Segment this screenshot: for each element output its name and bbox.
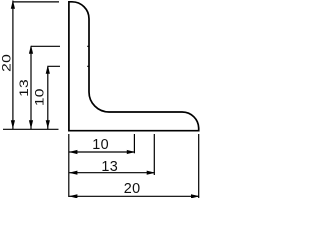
dimension line 13 (bottom) [69, 172, 155, 174]
svg-text:13: 13 [17, 79, 31, 97]
arrow down 13 [29, 120, 33, 129]
arrow down 10 [46, 120, 50, 129]
dimension line 10 (left) [47, 66, 49, 129]
svg-text:10: 10 [92, 137, 109, 153]
arrow right 10 [127, 150, 136, 154]
arrow right 20 [191, 194, 200, 198]
extension line bottom-left [3, 128, 59, 130]
arrow left 13 [69, 171, 78, 175]
arrow left 10 [69, 150, 78, 154]
extension line right of 20 (bottom) [198, 134, 200, 198]
arrow up 10 [46, 65, 50, 74]
dimension line 10 (bottom) [69, 151, 135, 153]
dimension line 20 (left) [12, 1, 14, 130]
svg-text:10: 10 [32, 88, 46, 106]
arrow left 20 [69, 194, 78, 198]
arrow right 13 [147, 171, 156, 175]
extension line right of 10 (bottom) [133, 134, 135, 153]
arrow up 13 [29, 45, 33, 54]
svg-text:20: 20 [124, 181, 141, 197]
dimension line 20 (bottom) [69, 195, 199, 197]
angle profile outline [69, 2, 199, 131]
extension line bottom group left [68, 134, 70, 197]
extension line top (for 20 left) [13, 1, 59, 3]
svg-text:20: 20 [0, 54, 13, 72]
extension line 13 left [31, 45, 89, 47]
extension line 10 left [48, 65, 90, 67]
extension line right of 13 (bottom) [153, 134, 155, 175]
arrow up 20 [11, 0, 15, 9]
svg-text:13: 13 [101, 159, 118, 175]
dimension line 13 (left) [30, 46, 32, 129]
arrow down 20 [11, 120, 15, 129]
